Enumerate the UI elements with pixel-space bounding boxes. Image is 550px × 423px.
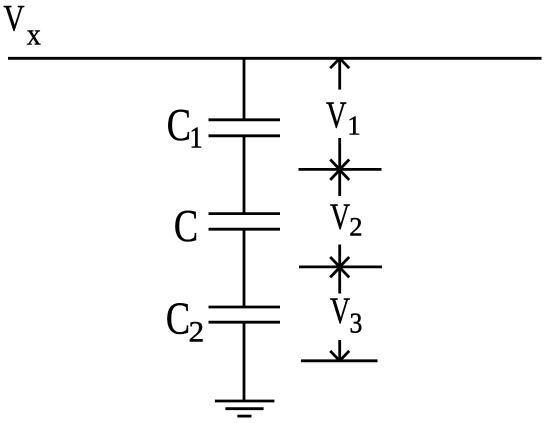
tick line 1: [299, 168, 382, 171]
ground: [215, 401, 275, 416]
label V2: [330, 197, 363, 241]
capacitor C2: [209, 307, 281, 322]
label C: [174, 200, 198, 251]
svg-text:V: V: [330, 291, 350, 332]
tick line 3: [301, 359, 378, 362]
svg-text:C: C: [166, 292, 190, 343]
svg-text:C: C: [167, 99, 191, 150]
svg-text:C: C: [174, 200, 198, 251]
wire C2 to ground: [243, 322, 246, 401]
arrow V1 up (at rail): [330, 58, 349, 89]
wire C1 to C: [243, 136, 246, 214]
wire rail to C1: [243, 58, 246, 120]
wire C to C2: [243, 229, 246, 307]
arrow V2 down (at tick 2): [330, 245, 349, 267]
arrow V3 down (at tick 3): [330, 340, 349, 361]
node Vx label: [3, 0, 41, 52]
svg-text:V: V: [326, 95, 347, 137]
label V3: [330, 291, 362, 339]
wire top rail Vx: [8, 57, 542, 60]
label C1: [167, 99, 203, 155]
svg-text:2: 2: [349, 212, 362, 242]
svg-text:3: 3: [350, 308, 363, 339]
tick line 2: [299, 265, 382, 268]
label V1: [326, 95, 361, 141]
capacitor C: [209, 214, 281, 230]
svg-text:V: V: [3, 0, 24, 39]
svg-text:2: 2: [189, 315, 205, 348]
arrow V2 up (below tick 1): [330, 170, 349, 196]
svg-text:V: V: [330, 197, 350, 238]
capacitor C1: [209, 120, 281, 136]
svg-text:1: 1: [189, 121, 202, 155]
arrow V3 up (below tick 2): [330, 268, 349, 294]
arrow V1 down (at tick 1): [330, 138, 349, 169]
label C2: [166, 292, 204, 348]
svg-text:1: 1: [347, 111, 361, 141]
svg-text:x: x: [27, 18, 41, 51]
